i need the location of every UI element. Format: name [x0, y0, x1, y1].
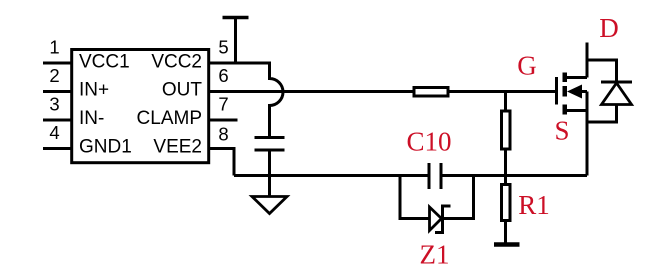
transistor Q1 channel segment drain — [563, 73, 568, 83]
svg-text:2: 2 — [49, 65, 59, 86]
power rail bar — [223, 16, 249, 20]
wire bottom rail left of C10 — [234, 174, 428, 177]
transistor Q1 channel segment source — [563, 105, 568, 115]
resistor R1 lead bottom — [504, 222, 507, 245]
wire diode branch top — [587, 60, 617, 83]
diode D1 cathode bar — [601, 81, 632, 84]
wire pin 4 lead — [43, 147, 72, 150]
svg-text:OUT: OUT — [162, 80, 203, 101]
svg-text:IN-: IN- — [79, 108, 104, 129]
resistor gate-source lead top — [504, 92, 507, 111]
resistor R1 body — [502, 185, 511, 221]
zener Z1 triangle — [430, 207, 442, 231]
wire bottom rail right of C10 — [443, 174, 588, 177]
svg-text:5: 5 — [218, 37, 228, 58]
diode D1 triangle — [602, 83, 632, 105]
wire zener loop right side — [444, 176, 474, 219]
resistor gate series body — [414, 88, 448, 97]
capacitor C10 left plate — [428, 163, 431, 189]
capacitor bypass top plate — [255, 136, 285, 139]
svg-text:1: 1 — [49, 37, 59, 58]
svg-text:C10: C10 — [406, 127, 451, 157]
resistor R1 lead top — [504, 176, 507, 184]
wire pin 1 lead — [43, 62, 72, 65]
ground symbol triangle — [252, 197, 287, 214]
svg-text:CLAMP: CLAMP — [137, 108, 202, 129]
zener Z1 cathode bar with hooks — [435, 206, 451, 233]
wire pin 6 OUT line to gate — [208, 90, 557, 93]
capacitor bypass bottom plate — [255, 149, 285, 152]
wire pin 7 CLAMP stub — [208, 119, 238, 122]
wire zener loop left side — [400, 176, 429, 219]
wire pin 2 lead — [43, 90, 72, 93]
wire VCC2 to power rail — [234, 18, 237, 64]
resistor gate-source body — [502, 111, 511, 149]
wire source vertical — [586, 92, 589, 176]
transistor Q1 body arrow — [567, 85, 582, 99]
wire pin 3 lead — [43, 119, 72, 122]
IC U1 body box — [72, 50, 209, 163]
transistor Q1 gate bar — [555, 77, 558, 105]
ground bar under R1 — [494, 242, 520, 247]
wire drain vertical — [586, 43, 589, 78]
svg-text:S: S — [554, 116, 569, 146]
svg-text:R1: R1 — [518, 190, 550, 220]
svg-text:G: G — [517, 51, 537, 81]
svg-text:GND1: GND1 — [79, 137, 132, 158]
transistor Q1 channel segment body — [563, 86, 568, 97]
transistor Q1 body stub — [580, 90, 587, 93]
svg-text:Z1: Z1 — [420, 240, 450, 270]
transistor Q1 drain stub — [565, 76, 587, 79]
resistor gate-source lead bottom — [504, 150, 507, 176]
capacitor C10 right plate — [440, 163, 443, 189]
svg-text:7: 7 — [218, 94, 228, 115]
svg-text:3: 3 — [49, 94, 59, 115]
svg-text:VCC1: VCC1 — [79, 52, 130, 73]
svg-text:4: 4 — [49, 122, 59, 143]
wire diode branch bottom — [587, 105, 617, 123]
wire pin 5 lead VCC2 — [208, 62, 271, 65]
wire vertical drop from VCC2 with hop over OUT — [270, 62, 284, 137]
svg-text:IN+: IN+ — [79, 80, 109, 101]
svg-text:D: D — [599, 13, 619, 43]
svg-text:VCC2: VCC2 — [151, 52, 202, 73]
wire capacitor to rail and ground stub — [268, 152, 271, 197]
svg-text:8: 8 — [218, 124, 228, 145]
transistor Q1 source stub — [565, 109, 587, 112]
svg-text:VEE2: VEE2 — [153, 137, 202, 158]
svg-text:6: 6 — [218, 65, 228, 86]
wire pin 8 VEE2 to bottom rail — [208, 149, 234, 176]
